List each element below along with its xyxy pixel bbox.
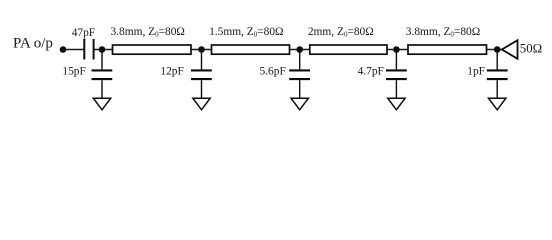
svg-text:4.7pF: 4.7pF xyxy=(358,65,384,77)
svg-text:47pF: 47pF xyxy=(72,27,95,39)
svg-text:PA o/p: PA o/p xyxy=(13,36,53,52)
svg-text:3.8mm, Z0=80Ω: 3.8mm, Z0=80Ω xyxy=(406,26,480,39)
svg-text:12pF: 12pF xyxy=(160,65,183,77)
svg-text:50Ω: 50Ω xyxy=(520,41,542,55)
svg-text:2mm, Z0=80Ω: 2mm, Z0=80Ω xyxy=(308,26,374,39)
svg-text:1pF: 1pF xyxy=(467,65,485,77)
svg-text:5.6pF: 5.6pF xyxy=(260,65,286,77)
svg-text:3.8mm, Z0=80Ω: 3.8mm, Z0=80Ω xyxy=(110,26,184,39)
svg-text:15pF: 15pF xyxy=(62,65,85,77)
svg-text:1.5mm, Z0=80Ω: 1.5mm, Z0=80Ω xyxy=(209,26,283,39)
